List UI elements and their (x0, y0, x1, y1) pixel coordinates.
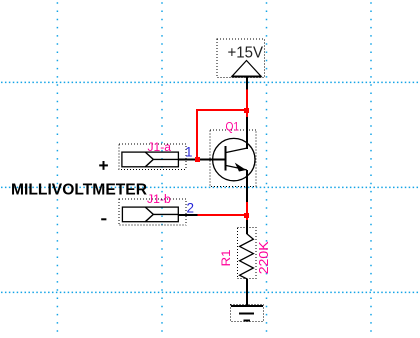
wire emitter red segment (246, 202, 248, 221)
power symbol +15V (217, 39, 265, 90)
svg-text:220K: 220K (256, 241, 271, 274)
svg-text:Q1: Q1 (226, 120, 240, 134)
resistor R1 (237, 228, 256, 279)
wire J1-a pin to base (178, 159, 225, 161)
plus sign (99, 161, 108, 170)
svg-text:MILLIVOLTMETER: MILLIVOLTMETER (11, 182, 147, 199)
ground (231, 305, 264, 322)
node A junction (244, 108, 249, 113)
svg-text:+15V: +15V (228, 44, 264, 61)
wire power to node A (246, 90, 248, 111)
svg-text:2: 2 (187, 201, 195, 216)
svg-text:R1: R1 (221, 250, 233, 267)
minus sign (101, 218, 106, 220)
node C junction (244, 213, 249, 218)
wire node A to base junction (197, 110, 247, 160)
wire node A to collector (246, 110, 248, 118)
node B junction (195, 157, 200, 162)
wire node C to R1 (246, 220, 248, 234)
svg-text:J1-b: J1-b (147, 194, 171, 206)
svg-text:J1-a: J1-a (148, 142, 172, 154)
connector J1-b (119, 199, 198, 225)
wire J1-b pin to node C (198, 214, 248, 216)
transistor Q1 (210, 117, 256, 203)
connector J1-a (119, 144, 186, 169)
svg-text:1: 1 (185, 144, 193, 159)
wire R1 to ground (246, 279, 248, 306)
